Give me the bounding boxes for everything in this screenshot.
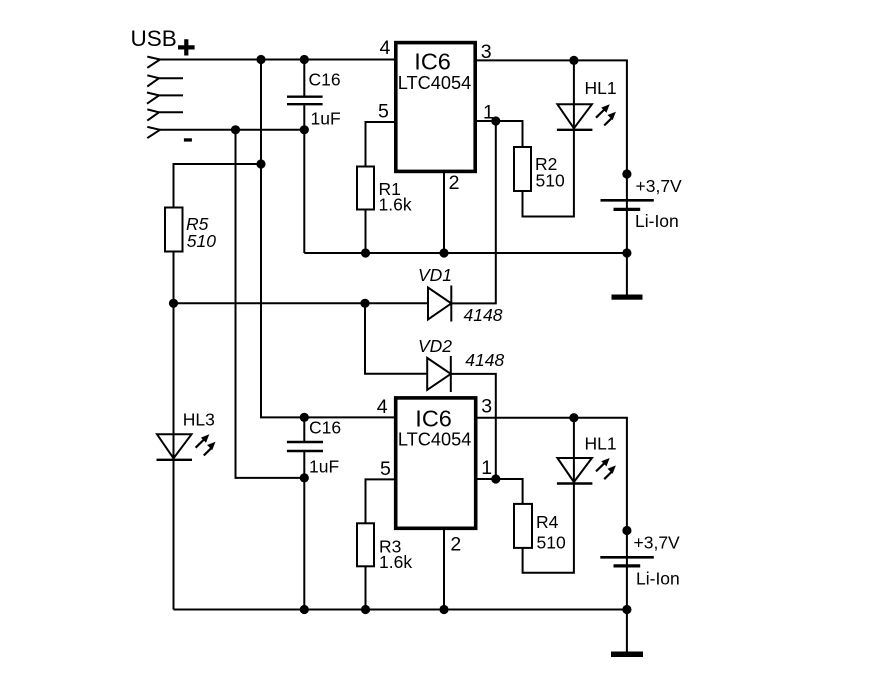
capacitor C16 bottom xyxy=(287,417,323,478)
svg-text:3: 3 xyxy=(481,396,492,418)
wire R5 to node A xyxy=(173,252,175,304)
wire R5 feed xyxy=(174,164,262,208)
wire bottom ground rail xyxy=(174,609,627,611)
wire pin2 bottom xyxy=(443,528,445,609)
wire +5V top rail xyxy=(158,59,396,61)
resistor R4 xyxy=(514,504,532,548)
LED HL3 xyxy=(157,434,216,460)
node + label xyxy=(178,39,195,55)
svg-text:C16: C16 xyxy=(309,418,341,438)
IC U1 box xyxy=(396,43,475,172)
resistor R2 xyxy=(514,147,531,191)
node - label xyxy=(184,138,192,141)
svg-text:1.6k: 1.6k xyxy=(379,195,412,215)
junction bottom rail / battery minus xyxy=(622,605,631,614)
svg-text:Li-Ion: Li-Ion xyxy=(635,211,679,231)
svg-text:1: 1 xyxy=(481,457,492,479)
junction pin1 top / R2 / VD1 xyxy=(491,116,500,125)
junction VD1 anode / VD2 link xyxy=(360,299,369,308)
svg-text:LTC4054: LTC4054 xyxy=(398,430,471,450)
wire pin2 top xyxy=(443,171,445,253)
resistor R3 xyxy=(357,523,374,566)
junction pin3 bottom / HL1 anode xyxy=(569,413,578,422)
svg-text:1.6k: 1.6k xyxy=(379,552,412,572)
capacitor C16 top xyxy=(287,60,323,130)
svg-text:5: 5 xyxy=(380,458,391,480)
resistor R1 xyxy=(357,167,374,210)
wire R1 to rail xyxy=(365,210,367,254)
junction pin1 bottom / R4 / VD2 xyxy=(491,474,500,483)
svg-text:1uF: 1uF xyxy=(311,109,341,129)
junction battery top + xyxy=(622,169,631,178)
junction USB minus / C16 bottom plate xyxy=(300,125,309,134)
battery GB2 xyxy=(600,557,654,566)
junction bottom rail / pin2 xyxy=(439,605,448,614)
wire +5V drop to lower IC pin 4 xyxy=(261,60,396,418)
svg-text:HL3: HL3 xyxy=(183,410,215,430)
svg-text:IC6: IC6 xyxy=(414,48,451,74)
junction USB minus / lower GND drop xyxy=(231,125,240,134)
svg-text:510: 510 xyxy=(537,532,566,552)
wire VD2 cathode to lower pin1 xyxy=(451,374,496,479)
ground bottom xyxy=(611,652,643,658)
wire HL1 top feed xyxy=(573,60,575,129)
junction top rail / R1 xyxy=(361,248,370,257)
wire HL1 bottom feed xyxy=(573,418,575,488)
junction +5V drop / R5 feed xyxy=(256,159,265,168)
svg-text:+3,7V: +3,7V xyxy=(636,176,683,196)
svg-text:+3,7V: +3,7V xyxy=(634,533,681,553)
svg-text:1uF: 1uF xyxy=(309,457,339,477)
svg-text:Li-Ion: Li-Ion xyxy=(636,569,680,589)
battery GB1 xyxy=(601,200,654,209)
wire pin5 bottom to R3 xyxy=(366,479,396,523)
svg-text:4: 4 xyxy=(377,396,388,418)
LED HL1 bottom xyxy=(557,458,616,484)
wire minus drop to top rail xyxy=(303,130,305,253)
wire pin5 to R1 xyxy=(366,122,396,167)
svg-text:4148: 4148 xyxy=(465,350,504,370)
diode VD1 xyxy=(428,286,451,322)
svg-text:VD1: VD1 xyxy=(418,265,452,285)
IC U2 box xyxy=(396,398,476,528)
junction battery bottom + xyxy=(622,526,631,535)
junction +5V / R5-HL3 branch drop xyxy=(256,55,265,64)
junction bottom rail / R3 xyxy=(361,605,370,614)
wire pin3 top to battery xyxy=(475,60,627,295)
svg-text:510: 510 xyxy=(187,231,216,251)
LED HL1 top xyxy=(557,104,616,130)
resistor R5 xyxy=(165,208,183,252)
wire R3 to rail xyxy=(365,566,367,609)
junction R5 / HL3 / VD1 anode xyxy=(169,299,178,308)
junction pin3 top / HL1 anode xyxy=(569,56,578,65)
svg-text:VD2: VD2 xyxy=(418,336,452,356)
svg-text:510: 510 xyxy=(536,170,565,190)
wire lower cap to rail xyxy=(303,478,305,610)
wire VD1 cathode to pin1 xyxy=(451,121,496,303)
junction top rail / battery minus xyxy=(622,248,631,257)
junction +5V / C16 top xyxy=(300,55,309,64)
wire pin3 bottom to battery xyxy=(476,418,627,652)
junction lower pin4 wire / C16 bottom xyxy=(300,413,309,422)
wire VD1 to VD2 link xyxy=(365,303,427,374)
wire pin1 bottom to R4 xyxy=(476,479,523,504)
wire HL3 column xyxy=(173,303,175,609)
svg-text:2: 2 xyxy=(450,533,461,555)
junction minus / lower C16 plate xyxy=(300,473,309,482)
svg-text:2: 2 xyxy=(449,172,460,194)
svg-text:IC6: IC6 xyxy=(415,405,452,431)
junction bottom rail / C16 drop xyxy=(300,605,309,614)
wire top ground rail xyxy=(304,252,627,254)
wire minus drop to lower capacitor xyxy=(236,130,305,478)
svg-text:C16: C16 xyxy=(309,70,341,90)
junction top rail / pin2 xyxy=(439,248,448,257)
wire R4 bottom to HL1 xyxy=(523,488,574,573)
svg-text:LTC4054: LTC4054 xyxy=(398,73,471,93)
wire VD1 anode rail xyxy=(174,302,429,304)
USB connector xyxy=(147,57,183,139)
svg-text:USB: USB xyxy=(131,26,177,51)
wire R2 bottom to HL1 xyxy=(523,130,574,217)
svg-text:HL1: HL1 xyxy=(585,433,617,453)
svg-text:R4: R4 xyxy=(536,512,559,532)
wire USB minus xyxy=(158,129,304,131)
svg-text:5: 5 xyxy=(378,101,389,123)
svg-text:4: 4 xyxy=(380,37,391,59)
diode VD2 xyxy=(427,356,451,392)
svg-text:4148: 4148 xyxy=(464,305,503,325)
svg-text:HL1: HL1 xyxy=(585,78,617,98)
wire pin1 to R2 xyxy=(475,121,522,147)
ground top xyxy=(612,295,643,300)
